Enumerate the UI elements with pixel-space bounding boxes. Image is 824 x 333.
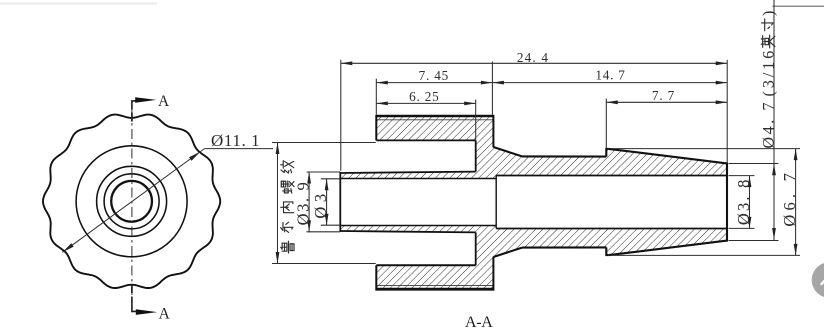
knob boss circle — [76, 146, 187, 257]
outlet end face — [726, 162, 728, 241]
dim dia 3.9 tube OD — [307, 171, 341, 173]
hatched solid, lower half of section — [340, 226, 727, 290]
dim dia 3.8 outlet bore — [729, 175, 755, 177]
dim dia 3 bore — [321, 178, 340, 180]
svg-text:A-A: A-A — [465, 314, 493, 331]
svg-text:A: A — [158, 93, 170, 110]
thread inner circle — [104, 174, 159, 229]
faint top-left divider line — [0, 2, 157, 4]
thread cavity outline — [376, 139, 475, 141]
vertical dash-dot centerline — [131, 110, 133, 297]
svg-text:A: A — [159, 306, 171, 323]
barb step — [606, 149, 609, 157]
luer tube circle — [111, 181, 152, 222]
svg-text:Ø3. 8: Ø3. 8 — [734, 177, 753, 225]
luer taper tube — [340, 172, 475, 173]
dim luer internal thread diameter — [272, 142, 376, 144]
svg-text:(3/16: (3/16 — [761, 48, 778, 97]
label dia 4.7 (3/16 inch) rotated — [761, 11, 778, 149]
svg-text:Ø3. 9: Ø3. 9 — [294, 181, 313, 226]
knob block outline — [376, 115, 493, 117]
svg-text:Ø4. 7: Ø4. 7 — [761, 100, 778, 149]
thread outer circle — [97, 166, 167, 236]
section arrow A (top) — [132, 101, 138, 110]
dim 6.25 cavity depth — [475, 100, 477, 140]
hatched solid, upper half of section — [340, 116, 727, 179]
svg-text:): ) — [761, 11, 778, 16]
tube bore lines — [340, 178, 496, 180]
dim dia 4.7 (3/16 inch) tip OD — [729, 163, 779, 165]
bore step face — [495, 176, 497, 229]
svg-text:14. 7: 14. 7 — [595, 67, 625, 82]
svg-text:Ø3: Ø3 — [311, 189, 330, 218]
floating scroll-top button (clipped) — [812, 262, 824, 298]
dim 7.45 / 14.7 chain line — [375, 79, 377, 115]
svg-text:Ø6. 7: Ø6. 7 — [780, 169, 799, 227]
top-right stray line — [772, 5, 824, 7]
label: luer internal thread (Chinese, vertical) — [281, 241, 294, 253]
shank outline — [522, 155, 606, 157]
section arrow A (bottom) — [132, 297, 138, 312]
barb taper — [609, 149, 727, 164]
dim dia 6.7 barb OD — [612, 148, 800, 150]
svg-text:24. 4: 24. 4 — [517, 50, 549, 65]
svg-text:6. 25: 6. 25 — [409, 89, 439, 104]
svg-text:7. 45: 7. 45 — [419, 68, 449, 83]
cone shoulder — [493, 147, 522, 156]
dim 7.7 barb length — [605, 99, 607, 149]
diameter dimension leader for scallop — [62, 149, 204, 253]
main bore — [496, 175, 727, 177]
dim 24.4 overall — [340, 60, 342, 171]
node A: scalloped knob outline (front view) — [43, 115, 220, 288]
svg-text:7. 7: 7. 7 — [652, 88, 675, 103]
svg-text:Ø11. 1: Ø11. 1 — [211, 131, 260, 150]
